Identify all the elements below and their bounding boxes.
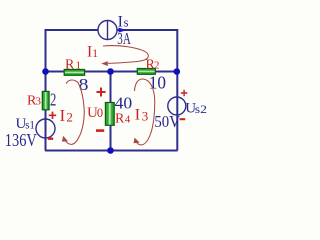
wire right (177,29.5)-(177,150.5)	[176, 29, 178, 151]
svg-text:2: 2	[154, 59, 160, 71]
svg-text:I: I	[60, 106, 66, 125]
svg-text:2: 2	[50, 90, 56, 110]
node C (right middle)	[174, 68, 181, 75]
svg-text:s2: s2	[195, 104, 207, 116]
node D (center bottom)	[107, 147, 114, 154]
minus mark Us2	[180, 118, 186, 120]
label R1	[65, 58, 81, 73]
minus mark U0	[96, 129, 104, 132]
label Us1	[16, 116, 36, 132]
plus mark Us2	[181, 90, 188, 97]
svg-text:10: 10	[149, 73, 166, 93]
wire bottom (45,150.5)-(177,150.5)	[45, 150, 178, 152]
arrow of current source (points right)	[119, 28, 125, 32]
svg-text:R: R	[65, 58, 75, 73]
resistor R3	[42, 91, 49, 109]
svg-text:R: R	[115, 111, 125, 126]
svg-text:50V: 50V	[154, 112, 180, 131]
resistor R4	[105, 103, 114, 126]
current source Is circle	[98, 21, 117, 40]
label I1	[87, 44, 98, 61]
minus mark Us1	[48, 137, 53, 139]
current arrow I1 (hairpin loop)	[101, 46, 148, 66]
svg-text:2: 2	[66, 109, 73, 124]
svg-text:0: 0	[97, 106, 103, 120]
svg-text:8: 8	[79, 75, 89, 94]
svg-text:3A: 3A	[117, 29, 131, 48]
plus mark Us1	[49, 112, 56, 119]
svg-text:1: 1	[76, 60, 82, 72]
label R4	[115, 111, 131, 126]
label Us2	[185, 101, 207, 117]
svg-text:136V: 136V	[5, 130, 37, 150]
svg-text:40: 40	[115, 94, 133, 113]
resistor R2	[137, 69, 155, 75]
label U0	[87, 105, 103, 121]
label I2	[60, 106, 73, 125]
wire center branch (110.5,71.5)-(110.5,150.5)	[110, 72, 112, 151]
label Is	[118, 14, 129, 31]
node B (center middle)	[107, 68, 114, 75]
label R3	[27, 94, 42, 109]
node A (left middle)	[42, 68, 49, 75]
svg-text:4: 4	[125, 113, 131, 125]
wire left (45,29.5)-(45,150.5)	[45, 29, 47, 151]
svg-text:I: I	[135, 106, 140, 123]
svg-text:1: 1	[92, 48, 98, 60]
resistor R1	[64, 70, 84, 76]
voltage source Us2	[168, 97, 186, 115]
plus mark U0	[97, 88, 106, 97]
svg-text:3: 3	[142, 109, 149, 124]
label I3	[135, 106, 149, 123]
wire top (45,29.5)-(177,29.5)	[45, 29, 177, 31]
svg-text:s: s	[124, 16, 129, 30]
voltage source Us1	[36, 119, 55, 138]
wire middle (45,71.5)-(177,71.5)	[45, 71, 177, 73]
current arrow I3 (right mesh loop)	[134, 79, 155, 145]
current arrow I2 (left mesh loop)	[62, 80, 84, 144]
svg-text:3: 3	[36, 96, 42, 108]
label R2	[146, 57, 160, 72]
